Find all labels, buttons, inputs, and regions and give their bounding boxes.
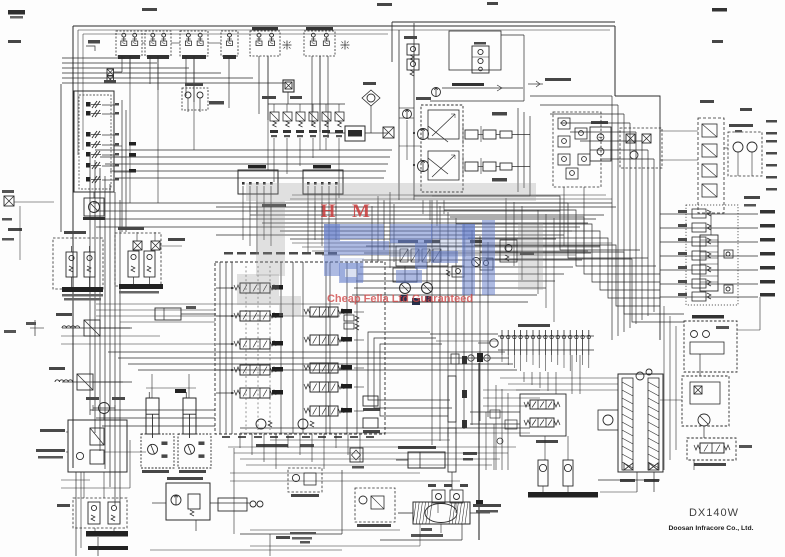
svg-text:DX140W: DX140W xyxy=(689,507,739,519)
svg-text:H: H xyxy=(321,201,336,222)
svg-text:Doosan Infracore Co., Ltd.: Doosan Infracore Co., Ltd. xyxy=(669,525,754,532)
svg-text:Cheap Fella Ltd Guaranteed: Cheap Fella Ltd Guaranteed xyxy=(327,293,473,305)
svg-text:M: M xyxy=(352,201,370,222)
